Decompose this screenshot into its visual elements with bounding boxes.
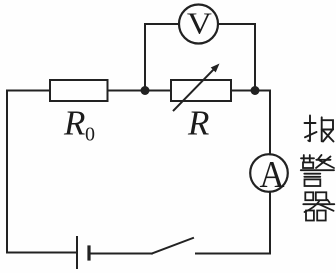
svg-text:R: R: [187, 104, 209, 143]
svg-text:V: V: [187, 6, 213, 41]
svg-text:A: A: [260, 154, 285, 196]
svg-text:0: 0: [85, 124, 95, 146]
svg-text:R: R: [63, 104, 85, 143]
